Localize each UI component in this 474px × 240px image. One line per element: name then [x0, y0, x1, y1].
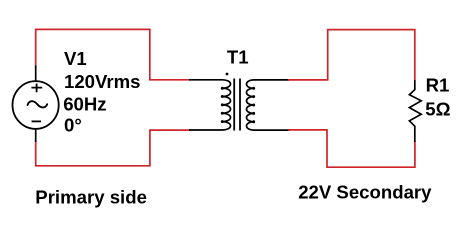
svg-text:V1: V1	[64, 48, 87, 69]
voltage source sine symbol	[28, 101, 48, 107]
voltage source minus sign	[32, 120, 41, 122]
svg-text:5Ω: 5Ω	[425, 99, 450, 120]
voltage source V1 black top lead	[35, 65, 37, 81]
wire primary top (source top to transformer left top)	[36, 29, 191, 79]
svg-text:T1: T1	[227, 46, 249, 67]
voltage source V1 black bottom lead	[35, 129, 37, 142]
voltage source plus sign	[31, 84, 42, 93]
transformer primary winding cusp knots	[221, 87, 224, 123]
svg-text:22V Secondary: 22V Secondary	[298, 182, 432, 203]
transformer secondary winding cusp knots	[252, 87, 255, 123]
resistor R1 zigzag with leads	[409, 80, 421, 142]
wire secondary bottom (transformer right bottom to resistor bottom)	[288, 130, 415, 167]
svg-text:Primary side: Primary side	[35, 186, 147, 207]
svg-text:R1: R1	[426, 75, 450, 96]
transformer T1 secondary winding with top/bottom leads	[246, 80, 289, 130]
svg-text:0°: 0°	[64, 114, 82, 135]
wire secondary top (transformer right top to resistor top)	[288, 30, 415, 81]
svg-text:120Vrms: 120Vrms	[64, 71, 141, 92]
wire primary bottom (source bottom to transformer left bottom)	[36, 130, 191, 166]
voltage source V1 circle	[12, 81, 58, 129]
svg-text:60Hz: 60Hz	[63, 93, 106, 114]
transformer polarity dot	[226, 73, 229, 76]
transformer core line right	[239, 79, 241, 131]
transformer core line left	[233, 79, 235, 131]
transformer T1 primary winding with top/bottom leads	[189, 80, 231, 130]
